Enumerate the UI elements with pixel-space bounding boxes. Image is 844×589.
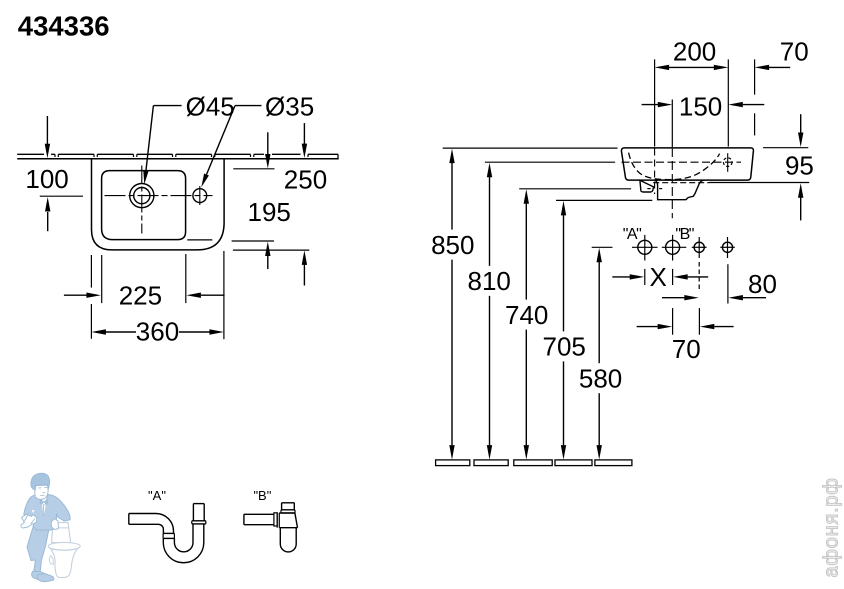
washbasin outer outline (plan view)	[92, 159, 225, 250]
extension line basin bottom right	[709, 182, 809, 184]
extension line for 740	[519, 188, 631, 190]
extension line hole D	[727, 264, 729, 303]
extension line for 850	[443, 147, 618, 149]
small hole D	[722, 237, 732, 258]
extension line left fixing hole	[654, 59, 656, 194]
hidden bowl outline (front view, dashed)	[629, 153, 720, 180]
svg-text:"A": "A"	[623, 226, 641, 243]
svg-text:95: 95	[785, 151, 814, 181]
washbasin body (front view)	[621, 148, 753, 180]
dimension 70 extension lines	[673, 308, 700, 335]
faucet hole Ø45 (plan view)	[130, 184, 154, 208]
dimension 70 arrows	[637, 324, 734, 329]
extension line bowl left edge	[101, 255, 103, 303]
extension line for 195 bottom (bowl front)	[187, 240, 274, 241]
svg-text:434336: 434336	[18, 11, 110, 42]
dimension 580 line with arrows	[597, 248, 602, 460]
svg-text:Ø35: Ø35	[265, 92, 314, 122]
extension line basin top right	[763, 147, 808, 149]
dimension 740 line with arrows	[524, 189, 529, 459]
extension line for 250 (basin front edge)	[233, 249, 309, 251]
extension line basin right edge	[223, 251, 225, 339]
svg-text:афоня.рф: афоня.рф	[821, 477, 843, 577]
vertical centre line of faucet hole	[141, 166, 143, 234]
dimension 150 arrows	[642, 102, 765, 107]
extension line right fixing hole	[727, 59, 729, 146]
hole A (trap A outlet)	[638, 235, 652, 261]
plumber mascot logo with toilet	[21, 473, 80, 581]
dimension 705 line with arrows	[561, 201, 566, 460]
dimension 360 line with arrows	[91, 329, 224, 334]
siphon variant "A" (P-trap)	[129, 504, 206, 563]
extension line for 705	[556, 199, 652, 201]
svg-text:"B": "B"	[675, 226, 693, 243]
extension line for 810	[485, 161, 615, 163]
dimension 95 arrows	[798, 114, 803, 220]
drain outlet profile (front view)	[655, 180, 704, 200]
svg-text:Ø45: Ø45	[186, 92, 235, 122]
dimension 195 arrows	[265, 132, 270, 269]
svg-text:250: 250	[284, 164, 327, 194]
svg-text:200: 200	[673, 37, 716, 67]
svg-text:360: 360	[136, 317, 179, 347]
svg-text:705: 705	[543, 332, 586, 362]
svg-text:80: 80	[748, 269, 777, 299]
svg-text:580: 580	[579, 364, 622, 394]
svg-text:150: 150	[679, 91, 722, 121]
extension line bowl right edge	[185, 254, 187, 303]
dimension X extension ticks	[645, 269, 673, 285]
svg-text:"B": "B"	[253, 488, 271, 503]
floor tiles	[436, 460, 470, 466]
svg-text:195: 195	[248, 197, 291, 227]
extension line hole C (dashed)	[698, 262, 700, 290]
horizontal centre line through holes (plan view)	[40, 195, 213, 198]
svg-text:740: 740	[505, 300, 548, 330]
dimension 200 line with arrows	[655, 65, 729, 70]
dimension 225 arrows	[64, 293, 225, 298]
wall face line (plan view)	[17, 158, 339, 160]
extension line basin left edge	[90, 255, 92, 339]
dimension 70 top arrow	[755, 65, 791, 70]
hidden drain flange line (dashed)	[653, 182, 709, 184]
dimension 100 arrows	[45, 116, 51, 231]
dimension 80 arrows	[662, 295, 766, 300]
dimension 810 line with arrows	[487, 163, 492, 460]
centre line of basin drain (vertical)	[671, 100, 673, 219]
svg-text:X: X	[650, 262, 667, 292]
svg-text:850: 850	[431, 230, 474, 260]
leader line for Ø45 label	[143, 106, 181, 185]
hole B (trap B outlet)	[666, 235, 680, 261]
overflow hole Ø35 (plan view)	[193, 189, 207, 203]
svg-text:100: 100	[25, 164, 68, 194]
extension line for 195 top (bowl rim)	[233, 168, 274, 170]
overflow centre line dashes	[647, 188, 662, 190]
dimension X arrows	[612, 274, 708, 279]
leader line for Ø35 label	[201, 106, 261, 188]
holes row centre line	[632, 246, 735, 248]
fixing holes centre line (front view)	[622, 161, 742, 163]
inner bowl outline (plan view)	[102, 171, 186, 240]
svg-text:225: 225	[119, 280, 162, 310]
right fixing hole (front view)	[723, 153, 732, 172]
extension line for 580	[592, 246, 613, 248]
svg-text:70: 70	[672, 334, 701, 364]
overflow cup below basin (front view)	[640, 180, 654, 192]
siphon variant "B" (bottle trap)	[244, 503, 298, 552]
dimension 250 arrows	[302, 123, 307, 285]
small hole C	[694, 237, 704, 258]
extension line basin right edge (front view)	[754, 59, 756, 135]
svg-text:"A": "A"	[148, 488, 166, 503]
svg-text:810: 810	[468, 266, 511, 296]
vertical centre line of Ø35 hole	[199, 186, 201, 205]
svg-text:70: 70	[780, 37, 809, 67]
dimension 850 line with arrows	[449, 149, 454, 460]
wall tiles dashed line (plan view)	[17, 153, 44, 155]
